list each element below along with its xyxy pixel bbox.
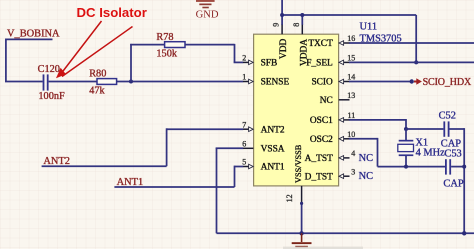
wire R78 to corner <box>185 44 235 46</box>
svg-text:VDD: VDD <box>279 38 289 59</box>
pin 4 A_TST <box>305 149 356 164</box>
svg-text:D_TST: D_TST <box>305 172 333 182</box>
svg-text:CAP: CAP <box>443 178 463 189</box>
svg-text:NC: NC <box>320 96 333 106</box>
svg-text:3: 3 <box>351 167 355 176</box>
svg-text:V_BOBINA: V_BOBINA <box>7 29 60 40</box>
svg-text:9: 9 <box>272 23 281 27</box>
capacitor C52 <box>443 121 449 136</box>
svg-text:2: 2 <box>242 54 246 63</box>
node pin12 stub end <box>300 202 303 205</box>
wire ANT1 vertical up <box>234 166 236 187</box>
op-amp U11 IC body TMS3705 <box>254 34 339 186</box>
svg-text:SCIO_HDX: SCIO_HDX <box>423 77 472 88</box>
svg-text:150k: 150k <box>156 49 177 60</box>
svg-text:R80: R80 <box>89 69 106 80</box>
svg-text:5: 5 <box>242 158 246 167</box>
svg-text:15: 15 <box>347 54 355 63</box>
wire OSC1 branch down <box>405 119 407 129</box>
svg-text:C120: C120 <box>38 64 60 75</box>
wire ANT1 horizontal <box>114 186 234 188</box>
wire SCIO pin14 <box>349 81 411 83</box>
pin 5 ANT1 <box>242 158 285 173</box>
wire VSSA down to ground bus <box>216 148 218 233</box>
wire to C120 <box>5 81 43 83</box>
svg-text:U11: U11 <box>360 21 378 32</box>
wire C120 to R80 <box>49 81 97 83</box>
svg-text:ANT2: ANT2 <box>261 125 285 135</box>
wire corner down to pin2 row <box>234 44 236 63</box>
svg-text:C53: C53 <box>444 148 461 159</box>
pin 10 OSC2 <box>310 130 355 145</box>
crystal X1 <box>398 129 414 167</box>
node C53 / vertical <box>462 165 466 169</box>
ground earth symbol (bottom) <box>283 233 363 249</box>
pin 13 NC <box>320 91 355 106</box>
wire to R78 <box>130 44 164 46</box>
pin 1 SENSE <box>242 73 289 88</box>
wire ANT2 horizontal <box>42 165 167 167</box>
svg-text:F_SEL: F_SEL <box>306 59 333 69</box>
svg-text:47k: 47k <box>89 86 105 97</box>
svg-text:16: 16 <box>347 34 355 43</box>
wire ANT1 to pin5 <box>235 166 244 168</box>
svg-text:12: 12 <box>285 194 294 202</box>
node OSC1 branch <box>404 127 408 131</box>
wire ground bus <box>217 232 474 234</box>
wire V_BOBINA vertical down <box>5 39 7 82</box>
node SCIO wire end <box>410 79 414 83</box>
node X1 bottom <box>404 165 408 169</box>
svg-text:6: 6 <box>242 140 246 149</box>
wire C52 right to corner <box>450 128 465 130</box>
svg-text:NC: NC <box>359 153 374 164</box>
wire OSC2 pin10 <box>349 138 378 140</box>
svg-text:OSC2: OSC2 <box>310 135 333 145</box>
svg-text:VDDA: VDDA <box>299 39 309 66</box>
svg-text:A_TST: A_TST <box>305 154 333 164</box>
annotation arrow line A <box>60 21 102 75</box>
resistor R78 <box>165 42 185 48</box>
wire right vertical to pin15 <box>415 15 417 62</box>
svg-text:100nF: 100nF <box>38 91 65 102</box>
wire OSC2 down <box>377 138 379 167</box>
svg-text:8: 8 <box>292 23 301 27</box>
svg-text:SENSE: SENSE <box>261 78 290 88</box>
svg-text:C52: C52 <box>439 111 456 122</box>
wire top bus vertical from edge <box>281 0 283 25</box>
wire right vertical C52/C53 to ground <box>463 128 465 233</box>
wire ANT2 to pin7 <box>167 128 244 130</box>
wire TXCT pin16 to edge <box>349 42 474 44</box>
svg-text:GND: GND <box>196 9 219 20</box>
pin 11 OSC1 <box>310 111 355 126</box>
wire V_BOBINA horizontal <box>6 38 53 40</box>
annotation arrow line B <box>62 27 133 77</box>
annotation arrowhead <box>56 68 66 78</box>
wire into SFB pin2 <box>234 61 244 63</box>
capacitor C120 <box>43 74 49 90</box>
node junction main/R78 <box>129 80 133 84</box>
svg-text:OSC1: OSC1 <box>310 116 333 126</box>
node pin12 / ground bus <box>299 231 303 235</box>
svg-text:ANT1: ANT1 <box>261 163 285 173</box>
port SCIO_HDX arrow <box>414 81 417 83</box>
pin 6 VSSA <box>242 140 285 155</box>
wire C53 right <box>451 166 464 168</box>
pin 8 VDDA (top) <box>292 23 310 66</box>
svg-text:R78: R78 <box>156 32 173 43</box>
wire VSSA pin6 left <box>216 147 244 149</box>
svg-text:4: 4 <box>351 149 355 158</box>
pin 12 VSS/VSSB (bottom) <box>285 144 303 203</box>
wire OSC2 row to C53 <box>378 166 446 168</box>
wire to C52 <box>406 128 443 130</box>
svg-text:10: 10 <box>347 130 355 139</box>
svg-text:DC Isolator: DC Isolator <box>77 5 147 20</box>
pin 7 ANT2 <box>242 120 285 135</box>
pin 15 F_SEL <box>306 54 355 69</box>
node right vertical / ground bus <box>462 231 466 235</box>
ground GND power port (top) <box>196 0 219 20</box>
node pin15 / vertical <box>414 60 418 64</box>
svg-text:11: 11 <box>347 111 355 120</box>
capacitor C53 <box>445 159 451 174</box>
svg-text:NC: NC <box>359 171 374 182</box>
svg-text:TXCT: TXCT <box>308 39 333 49</box>
wire pin8 drop <box>301 15 303 25</box>
svg-text:4 MHz: 4 MHz <box>416 147 446 158</box>
wire pin12 to ground bus <box>301 203 303 233</box>
pin 2 SFB <box>242 54 277 69</box>
svg-text:14: 14 <box>347 73 355 82</box>
svg-text:7: 7 <box>242 120 246 129</box>
svg-text:SCIO: SCIO <box>311 78 333 88</box>
pin 9 VDD (top) <box>272 23 290 59</box>
pin 16 TXCT <box>308 34 355 49</box>
wire ANT2 vertical up <box>166 128 168 166</box>
wire top bus horizontal <box>282 14 416 16</box>
svg-text:13: 13 <box>347 91 355 100</box>
node top bus / pin9 <box>280 13 284 17</box>
wire F_SEL pin15 to edge <box>349 61 474 63</box>
svg-text:VSSA: VSSA <box>261 145 285 155</box>
resistor R80 <box>97 79 117 85</box>
wire R80 to SENSE pin1 <box>117 81 244 83</box>
svg-text:VSS/VSSB: VSS/VSSB <box>294 144 303 183</box>
pin 3 D_TST <box>305 167 356 182</box>
wire R78 branch vertical left <box>130 44 132 82</box>
node top bus / pin8 <box>300 13 304 17</box>
svg-text:SFB: SFB <box>261 59 278 69</box>
svg-text:1: 1 <box>242 73 246 82</box>
wire OSC1 pin11 to branch <box>349 119 406 121</box>
pin 14 SCIO <box>311 73 355 88</box>
